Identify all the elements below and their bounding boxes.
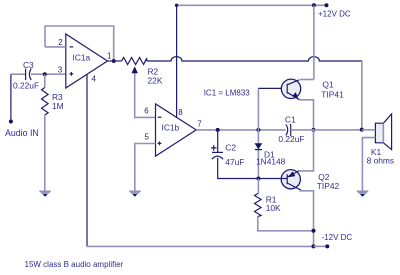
svg-text:1N4148: 1N4148 xyxy=(256,156,286,166)
svg-text:8 ohms: 8 ohms xyxy=(367,156,394,166)
wire Q1 base down to output node xyxy=(257,89,259,130)
svg-text:7: 7 xyxy=(197,120,202,129)
wire long feedback/output wire with hops xyxy=(147,57,362,62)
node emitters junction xyxy=(312,128,316,132)
transistor Q1 TIP41 xyxy=(281,79,344,100)
wire Q2 base node down to R1 xyxy=(257,179,260,194)
diode D1 xyxy=(255,143,286,166)
speaker K1 xyxy=(367,114,394,166)
wire C2 bottom to Q2 base node xyxy=(218,158,259,179)
capacitor C2 xyxy=(211,143,244,167)
wire Q1 collector jog xyxy=(300,79,314,81)
wire pin3 junction down to R3 xyxy=(44,74,46,87)
transistor Q2 TIP42 xyxy=(281,170,339,192)
node +12V junction xyxy=(312,3,316,7)
wire C3 to pin3 xyxy=(31,73,66,75)
wire Q2 emitter jog up to output node xyxy=(299,130,313,171)
resistor R2 potentiometer xyxy=(122,58,163,86)
wire Q2 base from node xyxy=(258,178,287,180)
ground below R3 xyxy=(39,191,51,197)
node rail corner dot xyxy=(175,4,178,7)
node Q2 base junction xyxy=(256,177,260,181)
wire pin2 stub xyxy=(45,46,66,48)
wire pin4 IC1a to negative rail xyxy=(86,75,88,247)
svg-text:1M: 1M xyxy=(52,101,64,111)
wire -12V stub xyxy=(314,245,328,247)
svg-text:4: 4 xyxy=(92,75,97,84)
op-amp U IC1a xyxy=(58,34,112,88)
node C3/R3 junction xyxy=(43,72,47,76)
wire Audio IN vertical xyxy=(10,74,12,121)
svg-text:C2: C2 xyxy=(225,143,236,153)
wire Q2 collector jog down to negative rail xyxy=(299,191,313,247)
svg-text:C1: C1 xyxy=(285,115,296,125)
svg-text:IC1a: IC1a xyxy=(73,53,91,63)
ground below speaker xyxy=(357,191,369,197)
svg-text:IC1b: IC1b xyxy=(162,123,180,133)
svg-text:Q1: Q1 xyxy=(322,80,334,90)
ground below IC1b pin5 xyxy=(129,191,141,197)
node IC1a output junction xyxy=(112,59,116,63)
wire C1 to speaker node xyxy=(291,129,362,131)
wire output corner down to speaker node xyxy=(361,61,363,130)
wire speaker top terminal xyxy=(362,129,376,131)
node speaker junction xyxy=(360,128,364,132)
svg-text:47uF: 47uF xyxy=(225,157,244,167)
op-amp U IC1b xyxy=(144,104,202,156)
node -12V terminal xyxy=(325,244,329,248)
wire R3 to ground xyxy=(44,115,46,191)
wire speaker bottom terminal to ground xyxy=(362,138,375,191)
capacitor C3 xyxy=(13,60,39,91)
capacitor C1 xyxy=(278,115,304,144)
wire Q1 base horizontal xyxy=(258,87,287,89)
resistor R1 xyxy=(255,194,282,217)
svg-text:C3: C3 xyxy=(23,60,34,70)
node +12V terminal xyxy=(325,3,329,7)
svg-text:6: 6 xyxy=(144,106,149,115)
svg-text:TIP41: TIP41 xyxy=(321,90,344,100)
wire Q1 emitter jog to output node xyxy=(300,100,314,130)
svg-text:2: 2 xyxy=(58,38,63,47)
svg-text:Audio IN: Audio IN xyxy=(5,128,39,138)
svg-text:22K: 22K xyxy=(148,76,163,86)
svg-text:IC1 = LM833: IC1 = LM833 xyxy=(204,88,251,97)
svg-text:-12V DC: -12V DC xyxy=(322,233,353,242)
wire R2 wiper arrow to pin6 xyxy=(132,66,156,117)
node -12V rail junction xyxy=(312,244,316,248)
wire IC1b output line xyxy=(196,129,286,131)
node D1/Q1 base junction xyxy=(256,128,260,132)
svg-text:1: 1 xyxy=(107,51,112,60)
resistor R3 xyxy=(42,88,64,116)
wire Audio IN horizontal to C3 xyxy=(11,73,25,75)
svg-text:15W class B audio amplifier: 15W class B audio amplifier xyxy=(25,260,124,269)
wire feedback loop IC1a xyxy=(45,26,114,61)
svg-text:10K: 10K xyxy=(266,203,281,213)
power -12V rail xyxy=(87,245,314,247)
svg-text:3: 3 xyxy=(58,66,63,75)
wire C2 top xyxy=(217,130,219,152)
svg-text:0.22uF: 0.22uF xyxy=(13,81,39,91)
wire IC1a output to R2 xyxy=(108,60,122,62)
svg-text:8: 8 xyxy=(178,108,183,117)
wire D1 vertical xyxy=(257,130,259,179)
node R1/collector junction xyxy=(312,229,316,233)
wire R1 bottom to collector line xyxy=(258,217,314,231)
node Audio IN terminal xyxy=(9,120,13,124)
wire +12V rail down to Q1 collector xyxy=(313,5,315,79)
wire +12V rail down to IC1b pin8 xyxy=(176,5,178,117)
wire pin5 to ground xyxy=(135,144,156,192)
svg-text:TIP42: TIP42 xyxy=(317,181,340,191)
power +12V rail xyxy=(177,4,327,6)
svg-text:+12V DC: +12V DC xyxy=(318,10,351,19)
node C2 junction xyxy=(216,128,220,132)
svg-text:5: 5 xyxy=(145,133,150,142)
svg-text:0.22uF: 0.22uF xyxy=(278,134,304,144)
